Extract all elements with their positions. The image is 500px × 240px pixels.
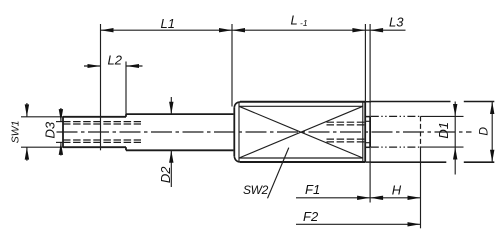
arrow D2 top (169, 102, 173, 114)
svg-text:SW2: SW2 (243, 183, 269, 197)
phantom hole line top (371, 115, 421, 117)
arrow L2 left outside (88, 64, 101, 68)
thread hidden line bottom outer (63, 141, 141, 143)
extension line x=365.6 (364, 24, 366, 102)
thread hidden line top outer (63, 121, 141, 123)
hex right face (364, 102, 366, 162)
svg-text:L1: L1 (161, 16, 175, 31)
stub thread hidden line top crest (327, 121, 365, 123)
dimension line D3 (60, 108, 62, 156)
hex chamfer line left (238, 102, 240, 161)
svg-text:H: H (392, 183, 402, 198)
extension line x=232 (231, 24, 233, 107)
D1 extension top (421, 115, 464, 117)
stub thread hidden line top root (327, 124, 365, 126)
arrow L1 left (101, 28, 114, 32)
dimension tail L3 (365, 29, 405, 31)
hex-to-housing bridge bottom (365, 161, 371, 163)
housing outer top line (371, 101, 495, 103)
arrow D3 bottom (59, 143, 63, 155)
arrow D2 bottom (169, 150, 173, 162)
svg-text:F1: F1 (305, 182, 320, 197)
extension line x=369.8 bottom (369, 147, 371, 202)
D1 extension bottom (421, 146, 464, 148)
stub bottom edge (365, 146, 370, 148)
arrow H right (408, 196, 421, 200)
stub thread root top (365, 120, 370, 122)
dimension line F1 (296, 197, 370, 199)
dimension line SW1 (26, 103, 28, 161)
dimension line H (370, 197, 420, 199)
dimension line L-1 (232, 29, 366, 31)
stub end face (369, 117, 371, 148)
stub thread hidden line bottom root (327, 138, 365, 140)
arrow L2 right outside (126, 64, 139, 68)
svg-text:-1: -1 (300, 18, 308, 28)
dimension line F2 (296, 223, 421, 225)
svg-text:D2: D2 (158, 166, 173, 183)
thread hidden line top inner (63, 123, 141, 125)
dimension line D (491, 102, 493, 163)
svg-text:F2: F2 (303, 209, 319, 224)
flat marking diagonal 2 (239, 106, 363, 158)
arrow SW1 bottom (25, 147, 29, 159)
wire left stud outline bottom (63, 146, 126, 148)
arrow F1 right (357, 196, 370, 200)
thread hidden line bottom inner (63, 139, 141, 141)
wire step bottom (125, 147, 127, 150)
stub top edge (365, 116, 370, 118)
centerline (57, 131, 472, 133)
arrow D bottom (490, 150, 494, 163)
dimension line D2 (170, 97, 172, 187)
phantom hole bottom face (420, 116, 422, 147)
hex body bottom outline (240, 161, 365, 163)
stub thread root bottom (365, 142, 370, 144)
stub thread hidden line bottom crest (327, 141, 365, 143)
hex chamfer line right (362, 102, 364, 161)
wire left stud outline top (63, 116, 126, 118)
arrow F2 right (408, 222, 421, 226)
wire step top (125, 114, 127, 117)
wire left stud end face (62, 117, 64, 147)
arrow SW1 top (25, 104, 29, 116)
leader SW2 (268, 148, 289, 199)
housing outer bottom line (371, 161, 495, 163)
svg-text:L: L (291, 13, 298, 28)
arrow D1 top (453, 104, 457, 116)
hex left bottom chamfer arc (234, 156, 240, 162)
svg-text:L3: L3 (389, 15, 404, 30)
dimension line D1 (454, 102, 456, 175)
SW1 extension line bottom (21, 146, 63, 148)
extension line x=100.5 (100, 24, 102, 150)
arrow D3 top (59, 109, 63, 121)
hex left top chamfer arc (234, 102, 240, 107)
dimension line L1 (101, 29, 233, 31)
flat marking diagonal 1 (239, 106, 363, 158)
hex left face (233, 107, 235, 156)
hex body top outline (240, 101, 365, 103)
hex flat edge top (239, 105, 363, 107)
D3 extension tick top (56, 121, 63, 123)
hex-to-housing bridge top (365, 101, 371, 103)
svg-text:L2: L2 (108, 53, 123, 68)
wire D2 shaft top (126, 113, 233, 115)
extension line x=125.5 (125, 62, 127, 115)
svg-text:D: D (476, 127, 490, 136)
phantom hole line bottom (371, 146, 421, 148)
arrow D1 bottom (453, 147, 457, 159)
arrow L1 right / L-1 left (219, 28, 232, 32)
arrow L3 right outside (370, 28, 383, 32)
arrow L-1 right (352, 28, 365, 32)
extension line x=420.5 bottom (420, 147, 422, 228)
svg-text:SW1: SW1 (10, 121, 22, 144)
svg-text:D3: D3 (42, 121, 57, 138)
extension line x=369.8 top (369, 24, 371, 117)
hex flat edge bottom (239, 157, 363, 159)
arrow D top (490, 102, 494, 115)
arrow H left (370, 196, 383, 200)
D3 extension tick bottom (56, 141, 63, 143)
SW1 extension line top (21, 116, 63, 118)
dimension tails L2 (84, 65, 143, 67)
svg-text:D1: D1 (436, 122, 451, 139)
wire D2 shaft bottom (126, 149, 233, 151)
